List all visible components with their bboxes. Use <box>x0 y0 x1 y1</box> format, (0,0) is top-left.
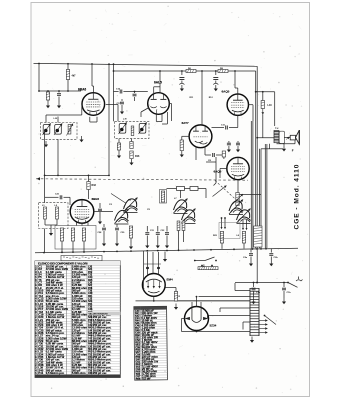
wire OT primary <box>274 92 276 126</box>
oscillator section CV3 <box>174 200 187 210</box>
wire 6AL5 top <box>159 71 161 93</box>
svg-text:5Z34: 5Z34 <box>210 324 217 328</box>
resistor R2 <box>46 92 49 100</box>
svg-text:250 pF cer.: 250 pF cer. <box>93 371 108 375</box>
wire stub <box>259 332 268 334</box>
wire OT link <box>257 137 274 139</box>
wire stub <box>259 328 268 330</box>
ground <box>157 242 159 246</box>
ground <box>131 159 133 163</box>
resistor R1 <box>67 64 69 70</box>
svg-text:L.M: L.M <box>54 118 58 120</box>
wire trunk D <box>258 149 260 248</box>
wire dashed link <box>215 181 238 202</box>
svg-text:R18: R18 <box>92 184 97 187</box>
ground <box>116 240 118 244</box>
resistor R25 <box>129 226 132 238</box>
resistor R24 <box>160 190 167 204</box>
svg-text:4k7: 4k7 <box>72 75 77 78</box>
svg-text:6BA6: 6BA6 <box>78 88 86 92</box>
potentiometer volume <box>236 193 239 206</box>
wire trunk E <box>264 144 266 248</box>
resistor R13 <box>222 151 225 157</box>
oscillator section CV3b <box>182 210 195 220</box>
component value table <box>35 261 120 378</box>
ground <box>164 256 166 260</box>
gang section CV1 <box>124 199 137 209</box>
wire antenna line <box>44 130 46 203</box>
wire heater line <box>136 300 251 302</box>
wire right trunk <box>256 66 258 282</box>
ground <box>45 141 47 145</box>
ground <box>283 298 285 302</box>
capacitor C9 <box>181 71 183 75</box>
resistor R12 <box>182 135 189 137</box>
wire 6BA6 cathode <box>89 117 91 122</box>
wire plate 6BA6 <box>91 64 93 86</box>
svg-text:6AL5: 6AL5 <box>154 81 162 85</box>
svg-text:CGE - Mod. 4110: CGE - Mod. 4110 <box>294 164 301 230</box>
wire stub <box>259 320 268 322</box>
capacitor C11 <box>212 127 225 129</box>
wire tap3 <box>176 300 250 302</box>
wire rect bottom <box>196 331 198 332</box>
resistor R22 <box>82 228 85 241</box>
wire 6AL5 out <box>169 103 171 105</box>
tuned circuit L5 <box>119 124 126 134</box>
capacitor <box>166 226 168 232</box>
ground <box>253 298 255 302</box>
resistor R16 <box>130 151 133 159</box>
gang section CV2 <box>115 210 128 220</box>
capacitor C15 <box>114 91 119 93</box>
wire plate 6AT7 <box>201 71 203 125</box>
resistor R7 <box>186 70 196 73</box>
svg-text:L10: L10 <box>268 104 273 107</box>
IF transformer T1 box <box>41 123 78 140</box>
wire screen feed <box>256 91 275 93</box>
resistor R27 <box>242 232 245 244</box>
ground <box>270 260 272 264</box>
wire eye left <box>142 251 144 289</box>
resistor R5 <box>131 139 133 142</box>
wire plate 6AQ5 <box>234 71 236 88</box>
IF transformer T2 box <box>115 121 149 138</box>
switch S2 <box>195 260 205 262</box>
svg-text:6AT7: 6AT7 <box>182 121 189 125</box>
wire tap5 <box>208 315 251 317</box>
power transformer T3 <box>249 288 251 336</box>
tube 6BA6 <box>82 93 105 116</box>
ground <box>250 260 252 264</box>
wire trunk A <box>108 64 110 175</box>
wire trunk C <box>250 121 252 248</box>
ground <box>130 243 132 247</box>
svg-text:0,5 Mohm pot.: 0,5 Mohm pot. <box>46 371 65 375</box>
wire <box>269 144 271 149</box>
capacitor C14 <box>237 141 239 143</box>
svg-text:6BE6: 6BE6 <box>92 197 100 201</box>
resistor R21 <box>71 228 74 241</box>
capacitor C22 <box>103 224 105 227</box>
svg-text:F: F <box>292 149 294 153</box>
svg-text:5.600 ohm: 5.600 ohm <box>72 371 86 375</box>
ground <box>251 337 253 341</box>
capacitor C12 <box>212 153 214 157</box>
wire eye feeds <box>147 252 149 275</box>
filter choke <box>254 226 262 247</box>
resistor R18 <box>88 175 90 181</box>
resistor pair <box>177 221 180 231</box>
wire trunk B <box>113 64 115 121</box>
capacitor C24 <box>250 249 252 253</box>
wire tap7 <box>209 331 251 333</box>
capacitor C26 <box>253 283 255 288</box>
capacitor C17 <box>121 99 123 101</box>
tuned circuit L6 <box>139 124 146 134</box>
tuned circuit L3 <box>43 125 50 135</box>
switch S4 <box>265 316 277 325</box>
wire <box>140 112 142 117</box>
capacitor C10 <box>215 71 217 75</box>
ground <box>175 304 177 308</box>
ground <box>103 240 105 244</box>
capacitor C6 <box>99 203 101 208</box>
resistor R30 <box>165 287 176 289</box>
wire 6AL5 cathode <box>155 114 157 121</box>
resistor R8 <box>218 70 228 73</box>
wire mains line <box>235 282 288 284</box>
wire <box>44 219 46 225</box>
padder S2 <box>190 187 198 191</box>
svg-text:VALORI TENSIONI: VALORI TENSIONI <box>89 312 108 315</box>
coil L1 <box>44 207 47 219</box>
wire chassis bus <box>35 248 298 253</box>
tuned circuit L4 <box>55 125 62 135</box>
capacitor C3 <box>58 91 60 93</box>
speaker SP <box>290 135 295 140</box>
coil L6b <box>131 126 134 136</box>
svg-text:P41: P41 <box>38 371 43 375</box>
wire <box>167 188 177 190</box>
capacitor C16 <box>134 92 136 94</box>
switch S3 <box>288 283 298 288</box>
wire B+ bus <box>34 63 258 66</box>
tube 5Z34 <box>185 307 209 331</box>
switch contacts A <box>221 218 223 227</box>
ground <box>118 152 120 156</box>
svg-text:T.U: T.U <box>275 128 279 130</box>
tube 6AL5 <box>148 93 170 115</box>
wire tap6 <box>243 321 250 323</box>
band switch CV4 <box>229 201 242 211</box>
wire 6BA6 plate to IF2 <box>106 104 118 106</box>
ground <box>47 102 49 106</box>
tube 6AT7 <box>189 125 212 148</box>
ground <box>50 230 52 234</box>
switch contacts B <box>242 220 244 228</box>
wire AVC drop <box>57 139 59 175</box>
antenna coil box <box>39 203 68 229</box>
capacitor <box>157 226 159 232</box>
coil L2 <box>56 207 59 219</box>
capacitor C27 <box>283 283 285 288</box>
capacitor C13 <box>228 141 230 143</box>
output transformer T2 <box>274 131 279 143</box>
resistor R26 <box>220 232 223 244</box>
resistor R4 <box>118 139 120 143</box>
wire rect top <box>196 297 198 307</box>
ground <box>283 145 285 149</box>
tube 6AQ5 output <box>227 94 248 115</box>
wire screen line <box>38 64 40 92</box>
capacitor C21 <box>45 196 59 198</box>
svg-text:EM4: EM4 <box>167 278 174 282</box>
svg-text:6AQ5: 6AQ5 <box>214 170 222 174</box>
wire rect left <box>182 318 185 320</box>
wire cathode <box>237 180 239 195</box>
gang dashed line <box>36 179 248 180</box>
ground <box>81 136 83 140</box>
tube 6BE6 <box>70 200 94 224</box>
AVC line <box>45 174 109 176</box>
svg-text:R16: R16 <box>135 155 140 158</box>
svg-text:0,5 MF: 0,5 MF <box>142 377 151 381</box>
band switch CV4b <box>237 210 250 220</box>
wire <box>76 223 78 226</box>
capacitor <box>146 226 148 232</box>
oscillator unit box <box>55 226 96 250</box>
wire <box>45 115 47 123</box>
wire eye bottom <box>153 296 155 301</box>
wire <box>195 148 197 161</box>
ground <box>58 102 60 106</box>
resistor R31 <box>198 267 218 270</box>
tube 6AQ5 II <box>227 157 249 179</box>
wire AF coupling <box>215 157 217 183</box>
capacitor C25 <box>270 248 272 252</box>
resistor R20 <box>60 228 63 241</box>
padder S1 <box>177 187 185 191</box>
svg-text:6AQ5: 6AQ5 <box>222 90 230 94</box>
svg-text:L.M: L.M <box>123 119 127 121</box>
component value table 2 <box>134 306 168 380</box>
coil L4b <box>68 125 71 135</box>
wire tap2 <box>199 296 251 298</box>
ground <box>146 242 148 246</box>
svg-text:C2b: C2b <box>274 257 279 259</box>
wire dial cord <box>111 194 126 204</box>
resistor R10 <box>262 92 264 101</box>
ground <box>166 242 168 246</box>
capacitor C23 <box>116 224 118 227</box>
svg-text:C1b: C1b <box>287 292 292 294</box>
tube EM4 <box>142 274 165 297</box>
svg-text:R68: R68 <box>136 377 141 381</box>
wire <box>262 109 264 115</box>
box <box>219 223 240 239</box>
wire bus 2 <box>114 70 187 72</box>
wire tap4 <box>220 307 250 309</box>
legend box <box>61 256 102 261</box>
wire stub <box>259 324 268 326</box>
wire tap1 <box>235 290 250 292</box>
wire <box>220 168 227 170</box>
ground <box>181 151 183 155</box>
